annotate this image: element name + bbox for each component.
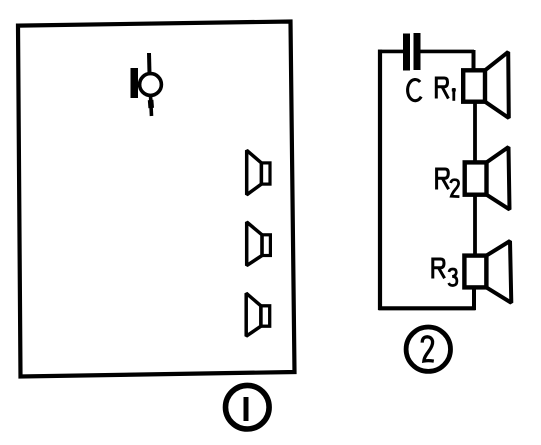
figure number 1 digit bbox=[244, 397, 249, 421]
microphone diaphragm bar bbox=[131, 68, 139, 98]
loudspeaker LS1 cone (figure 1, top) bbox=[247, 150, 262, 195]
loudspeaker LS5 horn at R2 bbox=[487, 147, 510, 210]
wire: figure 2 top, left of capacitor bbox=[378, 50, 404, 54]
microphone lead bottom bbox=[151, 95, 152, 116]
microphone lead top bbox=[147, 53, 152, 74]
loudspeaker LS2 cone (figure 1, middle) bbox=[247, 222, 262, 266]
label R2 bbox=[436, 168, 449, 190]
loudspeaker LS6 horn at R3 bbox=[486, 241, 511, 303]
wire: R2 to R3 bbox=[473, 194, 477, 257]
wire: figure 2 top, right of capacitor bbox=[420, 50, 474, 54]
label R2 subscript 2 bbox=[451, 180, 460, 197]
wire: top-right corner down to R1 bbox=[472, 50, 476, 71]
resistor R1 box bbox=[463, 70, 485, 101]
loudspeaker LS2 driver box bbox=[262, 235, 270, 256]
microphone body bbox=[140, 74, 162, 96]
figure number 2 digit bbox=[422, 337, 434, 361]
loudspeaker LS3 cone (figure 1, bottom) bbox=[246, 293, 261, 336]
loudspeaker LS3 driver box bbox=[261, 306, 270, 326]
wire: figure 2 left side bbox=[378, 50, 382, 310]
baffle board outline (figure 1 enclosure) bbox=[18, 22, 295, 377]
loudspeaker LS1 driver box bbox=[261, 163, 270, 184]
wire: R3 to bottom bbox=[472, 287, 476, 310]
resistor R3 box bbox=[464, 256, 486, 288]
loudspeaker LS4 horn at R1 bbox=[485, 52, 509, 118]
wire: R1 to R2 bbox=[473, 101, 477, 163]
label C bbox=[408, 79, 422, 100]
wire: figure 2 bottom side bbox=[379, 306, 476, 310]
label R1 bbox=[435, 77, 448, 99]
label R1 subscript 1 bbox=[452, 88, 455, 101]
capacitor C plates bbox=[403, 33, 421, 71]
label R3 subscript 3 bbox=[449, 269, 457, 286]
figure number 2 circle bbox=[406, 327, 450, 371]
figure number 1 circle bbox=[226, 385, 270, 429]
resistor R2 box bbox=[465, 162, 487, 194]
label R3 bbox=[432, 258, 445, 279]
